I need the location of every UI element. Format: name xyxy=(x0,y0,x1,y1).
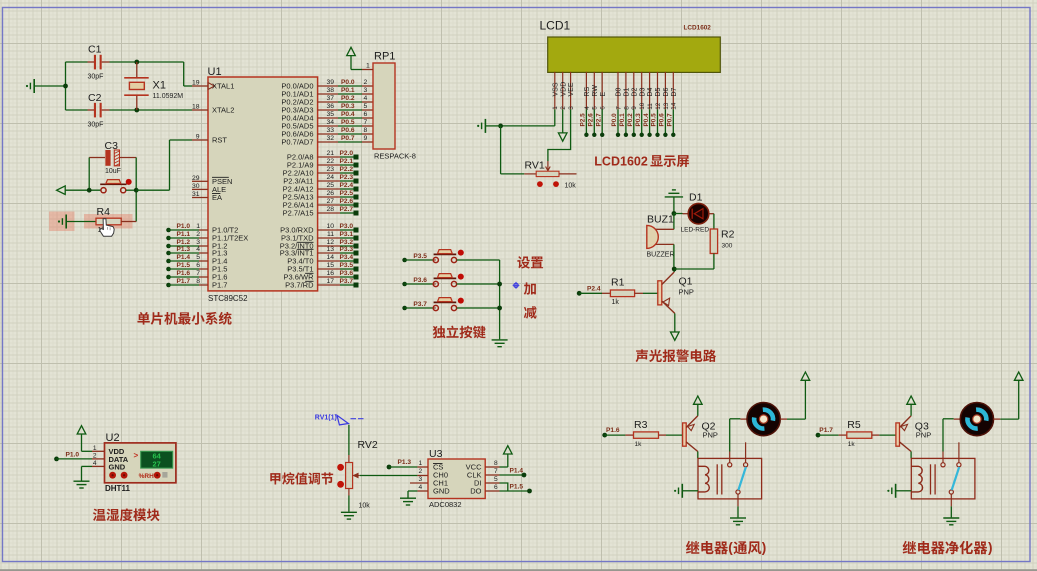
svg-text:1: 1 xyxy=(366,63,370,70)
svg-text:P1.5: P1.5 xyxy=(177,262,191,269)
svg-text:BUZZER: BUZZER xyxy=(647,251,675,258)
label: 独立按键 xyxy=(433,326,446,339)
LCD pin 5 RW xyxy=(593,72,595,109)
svg-text:8: 8 xyxy=(623,106,630,110)
capacitor C2 xyxy=(66,109,88,111)
svg-text:39: 39 xyxy=(326,79,334,86)
svg-text:1: 1 xyxy=(93,445,97,452)
svg-text:11: 11 xyxy=(647,103,654,110)
svg-text:28: 28 xyxy=(326,206,334,213)
svg-text:P1.0: P1.0 xyxy=(66,451,80,458)
svg-text:P2.2: P2.2 xyxy=(340,166,354,173)
node P2.7 xyxy=(318,212,340,214)
svg-text:5: 5 xyxy=(364,103,368,110)
ground under U2 GND xyxy=(82,465,93,467)
svg-text:3: 3 xyxy=(196,239,200,246)
svg-text:STC89C52: STC89C52 xyxy=(208,294,248,303)
push button P3.7 xyxy=(402,306,407,311)
svg-text:): ) xyxy=(762,540,767,555)
svg-text:P0.0: P0.0 xyxy=(611,113,618,127)
LCD pin 14 D7 xyxy=(672,72,674,109)
power terminal below Q1 xyxy=(671,332,680,340)
svg-text:10k: 10k xyxy=(359,503,371,510)
svg-text:U3: U3 xyxy=(429,448,443,460)
svg-text:P3.5: P3.5 xyxy=(340,262,354,269)
svg-text:10: 10 xyxy=(639,102,646,110)
svg-text:P2.6: P2.6 xyxy=(588,113,595,127)
svg-text:9: 9 xyxy=(364,135,368,142)
svg-text:34: 34 xyxy=(326,119,334,126)
svg-text:EA: EA xyxy=(212,193,222,202)
label: 继电器净化器) xyxy=(903,541,916,554)
svg-text:15: 15 xyxy=(326,262,334,269)
LCD pin 10 D3 xyxy=(641,72,643,109)
wire button to RST pin xyxy=(136,189,169,191)
svg-text:P3.7: P3.7 xyxy=(340,278,354,285)
svg-text:27: 27 xyxy=(326,198,334,205)
svg-text:9: 9 xyxy=(631,106,638,110)
svg-text:P1.1: P1.1 xyxy=(177,231,191,238)
node P1.7 terminal xyxy=(816,433,821,438)
svg-text:12: 12 xyxy=(655,102,662,110)
svg-text:P2.4: P2.4 xyxy=(587,286,601,293)
svg-text:P0.5: P0.5 xyxy=(651,113,658,127)
node P1.2 (left) xyxy=(166,244,171,249)
svg-text:10: 10 xyxy=(326,223,334,230)
svg-text:P1.3: P1.3 xyxy=(398,459,412,466)
svg-text:1: 1 xyxy=(196,223,200,230)
svg-text:): ) xyxy=(988,540,993,555)
svg-text:P0.4: P0.4 xyxy=(643,113,650,127)
node P3.3 xyxy=(318,252,340,254)
LCD VSS to ground xyxy=(554,109,556,126)
label: 声光报警电路 xyxy=(636,349,648,362)
ground left of crystal xyxy=(33,79,35,93)
svg-text:P1.0: P1.0 xyxy=(177,223,191,230)
svg-text:300: 300 xyxy=(722,242,733,249)
svg-text:P2.5: P2.5 xyxy=(580,113,587,127)
node P1.6 (left) xyxy=(166,275,171,280)
svg-text:VDD: VDD xyxy=(560,82,567,97)
label: 加 xyxy=(524,282,536,294)
svg-text:XTAL1: XTAL1 xyxy=(212,82,234,91)
power terminal at VCC xyxy=(485,466,499,468)
relay common to ground xyxy=(950,494,952,506)
svg-text:P1.7: P1.7 xyxy=(819,427,833,434)
relay contacts xyxy=(941,463,945,467)
relay box xyxy=(698,458,762,499)
node P2.4 terminal xyxy=(577,291,582,296)
svg-text:P0.2: P0.2 xyxy=(341,95,355,102)
terminal arrow left of reset button xyxy=(57,186,66,195)
svg-text:%RH: %RH xyxy=(139,473,154,480)
svg-text:5: 5 xyxy=(494,476,498,483)
svg-text:1: 1 xyxy=(419,460,423,467)
svg-text:21: 21 xyxy=(326,150,334,157)
svg-text:12: 12 xyxy=(326,239,334,246)
svg-text:3: 3 xyxy=(568,106,575,110)
svg-text:1k: 1k xyxy=(612,299,620,306)
wire relay to motor xyxy=(729,419,731,452)
svg-text:R2: R2 xyxy=(721,228,735,240)
svg-text:2: 2 xyxy=(196,231,200,238)
svg-text:31: 31 xyxy=(192,191,200,198)
svg-text:P1.7: P1.7 xyxy=(212,281,227,290)
power terminal above RP1 pin1 xyxy=(347,47,356,55)
svg-text:P1.4: P1.4 xyxy=(177,254,191,261)
node P1.6 terminal xyxy=(602,433,607,438)
svg-text:PNP: PNP xyxy=(703,431,718,440)
svg-text:X1: X1 xyxy=(153,80,166,92)
svg-text:GND: GND xyxy=(433,487,450,496)
relay coil xyxy=(911,466,922,492)
wire P0.1 xyxy=(318,93,338,95)
svg-text:P2.4: P2.4 xyxy=(340,182,354,189)
resistor R2 xyxy=(709,213,714,215)
resistor pack RP1 xyxy=(373,63,395,149)
transistor Q1 PNP xyxy=(658,281,662,305)
svg-text:P1.6: P1.6 xyxy=(177,270,191,277)
node P3.1 xyxy=(318,237,340,239)
svg-text:RV2: RV2 xyxy=(358,439,378,451)
svg-text:8: 8 xyxy=(196,278,200,285)
svg-text:P0.1: P0.1 xyxy=(341,87,355,94)
svg-text:36: 36 xyxy=(326,103,334,110)
crystal X1 xyxy=(136,62,138,77)
node P2.3 xyxy=(318,180,340,182)
node P3.5 xyxy=(318,268,340,270)
label: 设置 xyxy=(517,256,530,268)
svg-text:P2.7: P2.7 xyxy=(595,113,602,127)
svg-text:35: 35 xyxy=(326,111,334,118)
svg-text:13: 13 xyxy=(663,102,670,110)
mouse cursor xyxy=(100,219,114,237)
svg-text:26: 26 xyxy=(326,190,334,197)
svg-text:RW: RW xyxy=(592,85,599,97)
mcu U1 STC89C52 body xyxy=(208,77,318,291)
wire C1/C2 left vertical + ground terminal xyxy=(65,62,67,110)
resistor R3 xyxy=(605,434,626,436)
svg-text:P3.7: P3.7 xyxy=(413,301,427,308)
node P2.5 xyxy=(318,196,340,198)
wire DI to DO xyxy=(485,482,499,484)
node P3.6 xyxy=(318,276,340,278)
svg-text:19: 19 xyxy=(192,80,200,87)
svg-text:VSS: VSS xyxy=(552,82,559,96)
svg-text:33: 33 xyxy=(326,127,334,134)
svg-text:6: 6 xyxy=(196,262,200,269)
svg-text:D1: D1 xyxy=(624,87,631,96)
node P1.7 (left) xyxy=(166,283,171,288)
svg-text:P0.1: P0.1 xyxy=(619,113,626,127)
svg-text:LCD1602: LCD1602 xyxy=(684,24,712,31)
ground into coil xyxy=(681,484,683,498)
svg-text:(: ( xyxy=(728,540,733,555)
svg-text:10k: 10k xyxy=(565,183,577,190)
svg-text:2: 2 xyxy=(93,452,97,459)
wire P0.3 xyxy=(318,109,338,111)
wire P0.2 xyxy=(318,101,338,103)
buzzer BUZ1 xyxy=(655,228,674,230)
wire P0.5 xyxy=(318,125,338,127)
svg-text:PNP: PNP xyxy=(679,287,694,296)
svg-text:8: 8 xyxy=(494,460,498,467)
svg-text:2: 2 xyxy=(419,468,423,475)
svg-text:7: 7 xyxy=(494,468,498,475)
svg-text:P1.4: P1.4 xyxy=(510,468,524,475)
wire P0.6 xyxy=(318,133,338,135)
ground left of R4 xyxy=(65,215,67,229)
node P3.0 xyxy=(318,229,340,231)
node P1.3 to CS xyxy=(387,465,392,470)
svg-text:7: 7 xyxy=(615,106,622,110)
svg-text:RST: RST xyxy=(212,136,227,145)
ground into coil xyxy=(895,484,897,498)
wire P0.4 xyxy=(318,117,338,119)
svg-text:DO: DO xyxy=(470,487,481,496)
motor xyxy=(960,403,993,436)
svg-text:37: 37 xyxy=(326,95,334,102)
svg-text:RS: RS xyxy=(584,86,591,96)
svg-text:11.0592M: 11.0592M xyxy=(153,93,184,100)
svg-text:29: 29 xyxy=(192,175,200,182)
LCD pin 2 VDD xyxy=(562,72,564,109)
ground at U3 GND xyxy=(417,490,428,492)
svg-text:PNP: PNP xyxy=(916,431,931,440)
LCD pin 3 VEE xyxy=(570,72,572,109)
label: 温湿度模块 xyxy=(93,509,106,521)
svg-text:P0.2: P0.2 xyxy=(627,113,634,127)
svg-text:P3.1: P3.1 xyxy=(340,231,354,238)
power terminal above U2 xyxy=(77,426,86,434)
svg-text:P1.5: P1.5 xyxy=(510,484,524,491)
svg-text:30: 30 xyxy=(192,183,200,190)
LCD pin 6 E xyxy=(601,72,603,109)
svg-text:P2.6: P2.6 xyxy=(340,198,354,205)
pot RV2 xyxy=(348,425,350,455)
svg-text:P3.5: P3.5 xyxy=(413,253,427,260)
svg-text:D0: D0 xyxy=(616,87,623,96)
svg-text:P2.1: P2.1 xyxy=(340,158,354,165)
svg-text:LED-RED: LED-RED xyxy=(681,226,710,233)
origin marker xyxy=(514,283,518,287)
node P1.5 (left) xyxy=(166,267,171,272)
svg-text:P2.7: P2.7 xyxy=(340,206,354,213)
wire relay to motor xyxy=(942,419,944,452)
svg-text:P0.7: P0.7 xyxy=(341,135,355,142)
svg-text:7: 7 xyxy=(196,270,200,277)
node P2.4 xyxy=(318,188,340,190)
svg-text:23: 23 xyxy=(326,166,334,173)
svg-text:5: 5 xyxy=(196,254,200,261)
svg-text:Q1: Q1 xyxy=(679,275,693,287)
svg-text:13: 13 xyxy=(326,246,334,253)
svg-text:C2: C2 xyxy=(88,92,102,104)
node P3.4 xyxy=(318,260,340,262)
svg-text:P1.7: P1.7 xyxy=(177,278,191,285)
svg-text:6: 6 xyxy=(600,106,607,110)
wire RV2 wiper to CH0 xyxy=(360,475,418,477)
capacitor C1 xyxy=(66,61,88,63)
ground at LCD xyxy=(484,119,486,133)
svg-text:P0.4: P0.4 xyxy=(341,111,355,118)
svg-text:P0.7/AD7: P0.7/AD7 xyxy=(281,138,313,147)
relay blade (cyan) xyxy=(738,467,746,490)
transistor Q3 PNP xyxy=(896,423,900,446)
svg-text:D2: D2 xyxy=(631,87,638,96)
LCD pin 9 D2 xyxy=(633,72,635,109)
wire P0.0 xyxy=(318,85,338,87)
svg-text:GND: GND xyxy=(109,462,126,471)
svg-text:30pF: 30pF xyxy=(88,74,104,81)
wire motor to power xyxy=(780,418,787,420)
svg-text:P0.3: P0.3 xyxy=(635,113,642,127)
node P1.4 at CLK xyxy=(485,474,499,476)
svg-text:R1: R1 xyxy=(611,277,625,289)
push button P3.6 xyxy=(402,282,407,287)
node P1.0 (left) xyxy=(166,228,171,233)
relay box xyxy=(911,458,975,499)
svg-text:24: 24 xyxy=(326,174,334,181)
svg-text:4: 4 xyxy=(584,106,591,110)
wire C1 to XTAL1 xyxy=(137,61,184,63)
label: 继电器(通风) xyxy=(686,541,699,554)
svg-text:D6: D6 xyxy=(663,87,670,96)
buttons common wire to ground xyxy=(499,260,501,339)
svg-text:27: 27 xyxy=(152,459,160,468)
transistor Q2 PNP xyxy=(683,423,687,446)
svg-text:R4: R4 xyxy=(97,206,111,218)
svg-text:18: 18 xyxy=(192,104,200,111)
svg-text:4: 4 xyxy=(93,460,97,467)
svg-text:6: 6 xyxy=(494,484,498,491)
svg-text:3: 3 xyxy=(419,476,423,483)
svg-text:DHT11: DHT11 xyxy=(105,484,130,493)
label: 单片机最小系统 xyxy=(137,312,149,325)
svg-text:5: 5 xyxy=(592,106,599,110)
svg-text:P3.0: P3.0 xyxy=(340,223,354,230)
svg-text:RV1: RV1 xyxy=(525,160,545,172)
svg-text:8: 8 xyxy=(364,127,368,134)
sensor U2 DHT11 xyxy=(105,443,176,483)
svg-text:P3.3: P3.3 xyxy=(340,246,354,253)
svg-text:LCD1: LCD1 xyxy=(540,19,571,33)
svg-text:P2.7/A15: P2.7/A15 xyxy=(283,209,314,218)
svg-text:14: 14 xyxy=(671,102,678,110)
svg-text:P2.0: P2.0 xyxy=(340,150,354,157)
LCD pin 8 D1 xyxy=(625,72,627,109)
svg-text:BUZ1: BUZ1 xyxy=(647,213,674,225)
svg-text:P1.6: P1.6 xyxy=(606,427,620,434)
svg-text:4: 4 xyxy=(364,95,368,102)
node P1.5 at DO xyxy=(485,490,499,492)
LCD pin 13 D6 xyxy=(664,72,666,109)
svg-text:P3.6: P3.6 xyxy=(340,270,354,277)
svg-text:25: 25 xyxy=(326,182,334,189)
motor xyxy=(747,403,780,436)
svg-text:30pF: 30pF xyxy=(88,122,104,129)
svg-text:P0.5: P0.5 xyxy=(341,119,355,126)
svg-text:D4: D4 xyxy=(647,87,654,96)
selection highlight rects xyxy=(49,212,75,232)
svg-text:16: 16 xyxy=(326,270,334,277)
power terminal above transistor xyxy=(910,405,912,416)
node buzzer/led junction xyxy=(672,211,677,216)
svg-text:2: 2 xyxy=(560,106,567,110)
svg-text:U1: U1 xyxy=(208,66,222,78)
LCD pin 1 VSS xyxy=(554,72,556,109)
svg-text:P3.2: P3.2 xyxy=(340,239,354,246)
svg-text:VEE: VEE xyxy=(568,82,575,96)
svg-text:ADC0832: ADC0832 xyxy=(429,500,462,509)
svg-text:R5: R5 xyxy=(847,419,861,431)
svg-text:P1.2: P1.2 xyxy=(177,239,191,246)
svg-text:P0.6: P0.6 xyxy=(341,127,355,134)
svg-text:D1: D1 xyxy=(689,192,703,204)
LCD pin 11 D4 xyxy=(649,72,651,109)
DHT11 red indicators xyxy=(109,472,116,479)
node P2.0 xyxy=(318,156,340,158)
svg-text:R3: R3 xyxy=(634,419,648,431)
svg-text:RP1: RP1 xyxy=(374,51,395,63)
relay coil wire xyxy=(910,452,912,459)
node P1.3 (left) xyxy=(166,251,171,256)
resistor R5 xyxy=(818,434,839,436)
LCD VDD power (down arrow) xyxy=(562,109,564,133)
adc U3 ADC0832 xyxy=(428,459,485,499)
svg-text:3: 3 xyxy=(364,87,368,94)
svg-text:LCD1602: LCD1602 xyxy=(594,154,648,168)
label: 减 xyxy=(524,306,537,319)
relay common to ground xyxy=(737,494,739,506)
svg-text:32: 32 xyxy=(326,135,334,142)
svg-text:9: 9 xyxy=(196,134,200,141)
LCD pin 12 D5 xyxy=(657,72,659,109)
wire P0.7 xyxy=(318,141,338,143)
svg-text:17: 17 xyxy=(326,278,334,285)
U1 left pins XTAL/RST/PSEN/ALE/EA xyxy=(192,85,208,87)
resistor R1 xyxy=(579,292,602,294)
power terminal above transistor xyxy=(697,405,699,416)
svg-text:P3.7/RD: P3.7/RD xyxy=(285,281,314,290)
svg-text:E: E xyxy=(600,92,607,97)
svg-text:P0.7: P0.7 xyxy=(667,113,674,127)
svg-text:U2: U2 xyxy=(106,432,120,444)
svg-text:P3.6: P3.6 xyxy=(413,277,427,284)
node P3.2 xyxy=(318,245,340,247)
pin CH1 stub xyxy=(410,482,428,484)
svg-text:11: 11 xyxy=(327,231,334,238)
pin XTAL1 clock mark xyxy=(208,83,215,90)
svg-text:C3: C3 xyxy=(105,140,119,152)
svg-text:D3: D3 xyxy=(639,87,646,96)
led D1 xyxy=(674,213,683,215)
node P1.4 (left) xyxy=(166,259,171,264)
svg-text:P2.5: P2.5 xyxy=(340,190,354,197)
svg-text:RV1(1): RV1(1) xyxy=(315,414,337,421)
node P3.7 xyxy=(318,284,340,286)
svg-text:C1: C1 xyxy=(88,44,102,56)
svg-text:P2.3: P2.3 xyxy=(340,174,354,181)
svg-text:D5: D5 xyxy=(655,87,662,96)
node P2.6 xyxy=(318,204,340,206)
svg-text:1k: 1k xyxy=(848,441,856,448)
svg-text:P0.6: P0.6 xyxy=(659,113,666,127)
relay coil xyxy=(698,466,709,492)
svg-text:14: 14 xyxy=(326,254,334,261)
svg-text:P1.3: P1.3 xyxy=(177,246,191,253)
resistor R4 xyxy=(66,221,96,223)
